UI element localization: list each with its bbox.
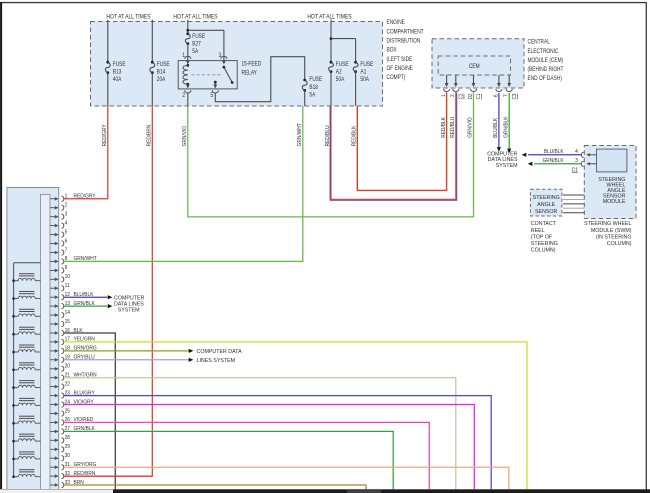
CEM pin D2 number [467,93,473,99]
CEM internal pin lead 4 [496,75,502,92]
svg-text:30: 30 [65,453,71,459]
svg-text:END OF DASH): END OF DASH) [528,76,563,83]
wire label GRN/WHT (below fuse box) [297,122,303,146]
steering wheel angle sensor module label [598,177,626,205]
svg-text:(IN STEERING: (IN STEERING [596,234,632,240]
wire fuse B14 to box edge [151,73,153,106]
svg-text:RED/BRN: RED/BRN [146,124,152,146]
wire RED/BLK (fuse A1 to CEM pin 1) [357,92,446,190]
relay pin 3 connector [221,56,227,64]
wire GRY/BLU pin 19 (data line) [64,358,193,362]
wire label RED/BLK (below fuse box) [351,125,357,146]
svg-text:3: 3 [219,53,222,60]
steering angle sensor box [530,189,562,216]
wire branch to fuse A1 [331,39,356,62]
svg-text:2: 2 [182,93,185,100]
central electronic module box [432,39,524,88]
CEM connector C2 label [458,93,464,99]
svg-text:CENTRAL: CENTRAL [528,39,550,46]
label HOT AT ALL TIMES (fuses B13/B14) [106,14,150,20]
svg-text:HOT AT ALL TIMES: HOT AT ALL TIMES [106,14,150,20]
CEM pin 6 number [493,94,499,97]
CEM connector C3 label [512,93,518,99]
CEM internal pin lead 1 [444,75,450,92]
svg-text:5A: 5A [192,49,198,56]
svg-text:40A: 40A [113,77,122,84]
svg-text:FUSE: FUSE [336,61,349,68]
wire fuse A2 feed [330,20,332,62]
relay pin 1 connector [185,56,191,64]
wire label RED/BLU (below fuse box) [325,125,331,146]
fuse A2 [329,61,334,73]
svg-text:2: 2 [65,202,68,208]
fuse B14 value label [157,61,170,83]
svg-text:COLUMN): COLUMN) [531,248,556,254]
SWM internal lead pin 3 [586,162,596,165]
relay switch blade [223,66,234,84]
CEM internal pin lead 2 [453,75,459,92]
wire label GRN/VIO (below CEM) [467,117,473,137]
wire BLU/BLK pin 12 (data line) [64,295,112,299]
fuse A1 value label [360,61,373,83]
CEM pin 2 number [450,94,456,97]
relay name label [242,61,262,77]
node fuse B27 / relay pin3 junction [186,29,189,32]
svg-text:GRN/BLK: GRN/BLK [543,158,565,164]
svg-text:COMPT): COMPT) [387,75,406,82]
SWM pin 3 number [575,158,578,164]
wire GRN/ORG pin 18 (data line) [64,349,193,353]
svg-text:4: 4 [65,220,68,226]
fuse A2 value label [336,61,349,83]
svg-text:GRN/VIO: GRN/VIO [467,117,473,137]
fuse B14 [150,61,155,74]
svg-text:STEERING WHEEL: STEERING WHEEL [584,221,631,227]
svg-text:5A: 5A [309,92,315,99]
wire relay pin 2 lead inside box [187,93,189,106]
svg-text:ELECTRONIC: ELECTRONIC [528,48,559,55]
svg-text:SENSOR: SENSOR [535,209,558,215]
fuse B18 value label [309,77,322,99]
svg-text:20A: 20A [157,77,166,84]
svg-text:(TOP OF: (TOP OF [531,234,553,240]
relay box (15-FEED RELAY) [178,61,237,89]
svg-text:COMPUTER DATA: COMPUTER DATA [197,349,243,355]
wire GRN/BLK SWM pin 3 (data line) [528,162,582,166]
relay pin 5 connector [212,90,218,93]
wire RED/GRY (fuse B13 to pin 1) [64,106,108,199]
engine compartment distribution box label [387,20,425,82]
wire BLU/BLK CEM pin 6 (data line) [497,93,501,152]
svg-text:C2: C2 [458,93,464,99]
wire label GRN/VIO (below fuse box) [182,126,188,146]
label computer data lines system (CEM) [487,151,518,168]
svg-text:C1: C1 [476,93,482,99]
relay pin 2 wire [186,84,190,88]
wire GRN/BLK pin 27 [64,431,393,489]
svg-text:GRN/BLK: GRN/BLK [503,116,509,138]
wire WHT/GRN pin 21 [64,378,456,490]
svg-text:COLUMN): COLUMN) [607,241,632,247]
svg-text:BLU/BLK: BLU/BLK [493,117,499,137]
wire GRN/WHT (fuse B18 to pin 8) [64,106,303,261]
window border left [0,2,2,490]
wire GRN/VIO (relay pin 2 to CEM D2) [188,92,474,216]
svg-text:6: 6 [65,238,68,244]
svg-text:FUSE: FUSE [192,33,205,40]
SWM pin 3 connector [581,161,583,166]
svg-text:50A: 50A [360,77,369,84]
wire label GRN/BLK (below CEM) [503,116,509,138]
svg-text:HOT AT ALL TIMES: HOT AT ALL TIMES [173,14,217,20]
wire fuse B27 to relay pin 1 [187,44,189,56]
svg-text:GRN/VIO: GRN/VIO [182,126,188,146]
label HOT AT ALL TIMES (fuses A2/A1) [307,14,351,20]
svg-text:FUSE: FUSE [360,61,373,68]
contact reel caption [531,221,558,253]
svg-text:FUSE: FUSE [309,77,322,84]
label HOT AT ALL TIMES (fuse B27) [173,14,217,20]
svg-text:29: 29 [65,444,71,450]
wire label BLU/BLK (below CEM) [493,117,499,137]
CEM internal pin lead 3 [470,75,476,92]
left connector pin numbers [65,193,71,486]
wire label RED/BLK (below CEM) [441,117,447,138]
svg-text:B14: B14 [157,69,166,76]
steering wheel module caption [584,221,632,247]
SWM connector C1 label [572,167,578,173]
label computer data lines system (pins 18/19) [197,349,243,364]
svg-text:11: 11 [65,283,70,289]
svg-text:MODULE: MODULE [603,199,626,205]
steering wheel module box [584,146,636,219]
svg-text:LINES SYSTEM: LINES SYSTEM [197,358,236,364]
wire GRY/ORG pin 31 [64,467,509,489]
CEM pin 7 number [503,94,509,97]
fuse B18 [302,79,307,92]
svg-text:14: 14 [65,310,71,316]
svg-text:FUSE: FUSE [113,61,126,68]
bottom left strip [0,489,113,493]
svg-text:20: 20 [65,363,71,369]
svg-text:CEM: CEM [469,64,480,71]
window border right [645,3,647,490]
wire fuse B13 to box edge [107,73,109,106]
wire YEL/GRN pin 17 [64,342,527,489]
svg-text:FUSE: FUSE [157,61,170,68]
svg-text:SYSTEM: SYSTEM [118,307,140,313]
svg-text:SYSTEM: SYSTEM [496,163,518,169]
svg-text:CONTACT: CONTACT [531,221,557,227]
fuse B27 [185,32,190,45]
wire BLU/GRY pin 23 [64,396,491,490]
svg-text:B18: B18 [309,84,318,91]
wire branch to relay pin 3 [188,30,224,56]
relay pin 3 number [219,53,222,60]
relay pin 2 connector [185,90,191,93]
CEM pin 1 number [441,94,447,97]
steering angle sensor label [533,195,560,215]
CEM internal pin lead 5 [506,75,512,92]
svg-text:15: 15 [65,319,71,325]
label computer data lines system (pins 12/13) [114,295,144,313]
svg-text:C1: C1 [572,167,578,173]
fuse B13 [105,61,110,74]
svg-text:A1: A1 [360,69,366,76]
wire RED/BRN (fuse B14 to pin 32) [64,106,152,476]
svg-text:B13: B13 [113,69,122,76]
central electronic module label [528,39,565,82]
wire label RED/BRN (below fuse box) [146,124,152,146]
fuse A1 [353,61,358,73]
wire relay pin 5 to fuse B18 [215,57,304,102]
svg-text:MODULE (SWM): MODULE (SWM) [591,228,632,234]
relay pin 5 number [210,93,213,100]
svg-text:RELAY: RELAY [242,70,258,77]
steering angle sensor ribbon to SWM [563,195,584,213]
steering wheel angle sensor module inner box [597,149,627,172]
relay coil [183,64,189,86]
svg-text:STEERING: STEERING [533,195,560,201]
wire label GRN/BLK (SWM) [543,158,565,164]
wire BLK pin 16 [64,333,115,489]
svg-text:STEERING: STEERING [531,241,558,247]
fuse B27 value label [192,33,205,55]
engine compartment distribution box [91,22,383,107]
svg-text:3: 3 [65,211,68,217]
svg-text:BLU/BLK: BLU/BLK [544,149,564,155]
svg-text:C3: C3 [512,93,518,99]
wire fuse A1 to box edge [355,72,357,106]
left connector pin terminals [50,196,64,487]
svg-text:1: 1 [182,53,185,60]
wire BRN pin 33 [64,485,366,489]
relay pin 1 number [182,53,185,60]
CEM connector C1 label [476,93,482,99]
svg-text:5: 5 [210,93,213,100]
left connector wire colour labels [74,193,98,486]
svg-text:DISTRIBUTION: DISTRIBUTION [387,38,421,45]
svg-text:7: 7 [65,247,68,253]
wire GRN/BLK pin 13 (data line) [64,304,112,308]
wire fuse A2 to box edge [330,72,332,106]
svg-text:ANGLE: ANGLE [537,202,555,208]
svg-text:RED/GRY: RED/GRY [102,124,108,147]
svg-text:15-FEED: 15-FEED [242,61,262,68]
svg-text:ENGINE: ENGINE [387,20,406,27]
svg-text:MODULE (CEM): MODULE (CEM) [528,57,564,64]
wire fuse B18 to box edge [304,91,306,106]
wire label RED/GRY (below fuse box) [102,124,108,147]
svg-text:COMPARTMENT: COMPARTMENT [387,29,425,36]
svg-text:28: 28 [65,435,71,441]
CEM inner box [438,56,510,75]
svg-text:RED/BLU: RED/BLU [450,117,456,138]
wire fuse B13 feed [107,20,109,62]
left connector pin strip [41,195,51,493]
svg-text:A2: A2 [336,69,342,76]
wire fuse B14 feed [151,20,153,62]
svg-text:5: 5 [65,229,68,235]
wire GRN/BLK CEM pin 7 (data line) [507,93,511,153]
svg-text:REEL: REEL [531,228,545,234]
bottom scroll bar thumb [347,489,381,493]
bottom scroll bar [113,489,650,493]
svg-text:10: 10 [65,274,71,280]
node fuse A2/A1 junction [330,37,333,40]
wire label RED/BLU (below CEM) [450,117,456,138]
SWM pin 4 number [575,149,578,155]
svg-text:HOT AT ALL TIMES: HOT AT ALL TIMES [307,14,351,20]
svg-text:(LEFT SIDE: (LEFT SIDE [387,56,413,63]
svg-text:50A: 50A [336,77,345,84]
svg-text:B27: B27 [192,41,201,48]
svg-text:(BEHIND RIGHT: (BEHIND RIGHT [528,67,565,74]
svg-text:OF ENGINE: OF ENGINE [387,66,414,73]
relay switch contact pin 5 [213,81,217,89]
wire label BLU/BLK (SWM) [544,149,564,155]
left connector box [7,188,59,493]
wire RED/BLU red conductor [331,92,456,199]
svg-text:GRN/WHT: GRN/WHT [297,122,303,146]
svg-text:22: 22 [65,381,71,387]
svg-text:BOX: BOX [387,47,397,54]
relay armature dashed link [192,74,222,76]
wire BLU/BLK SWM pin 4 (data line) [522,153,582,157]
SWM internal lead pin 4 [586,153,596,156]
ignition coil bank inside left connector [12,263,40,478]
wire RED/BLU blue conductor [330,92,457,200]
wire fuse B27 feed [187,20,189,34]
wire RED/BRN pin 32 lead [64,475,152,477]
wire VIO/RED pin 26 [64,422,429,489]
window border top [1,2,647,4]
wire VIO/GRY pin 24 [64,405,474,490]
svg-text:25: 25 [65,408,71,414]
CEM label [469,64,480,71]
SWM pin 4 connector [581,152,583,157]
relay pin 2 number [182,93,185,100]
fuse B13 value label [113,61,126,83]
svg-text:9: 9 [65,265,68,271]
